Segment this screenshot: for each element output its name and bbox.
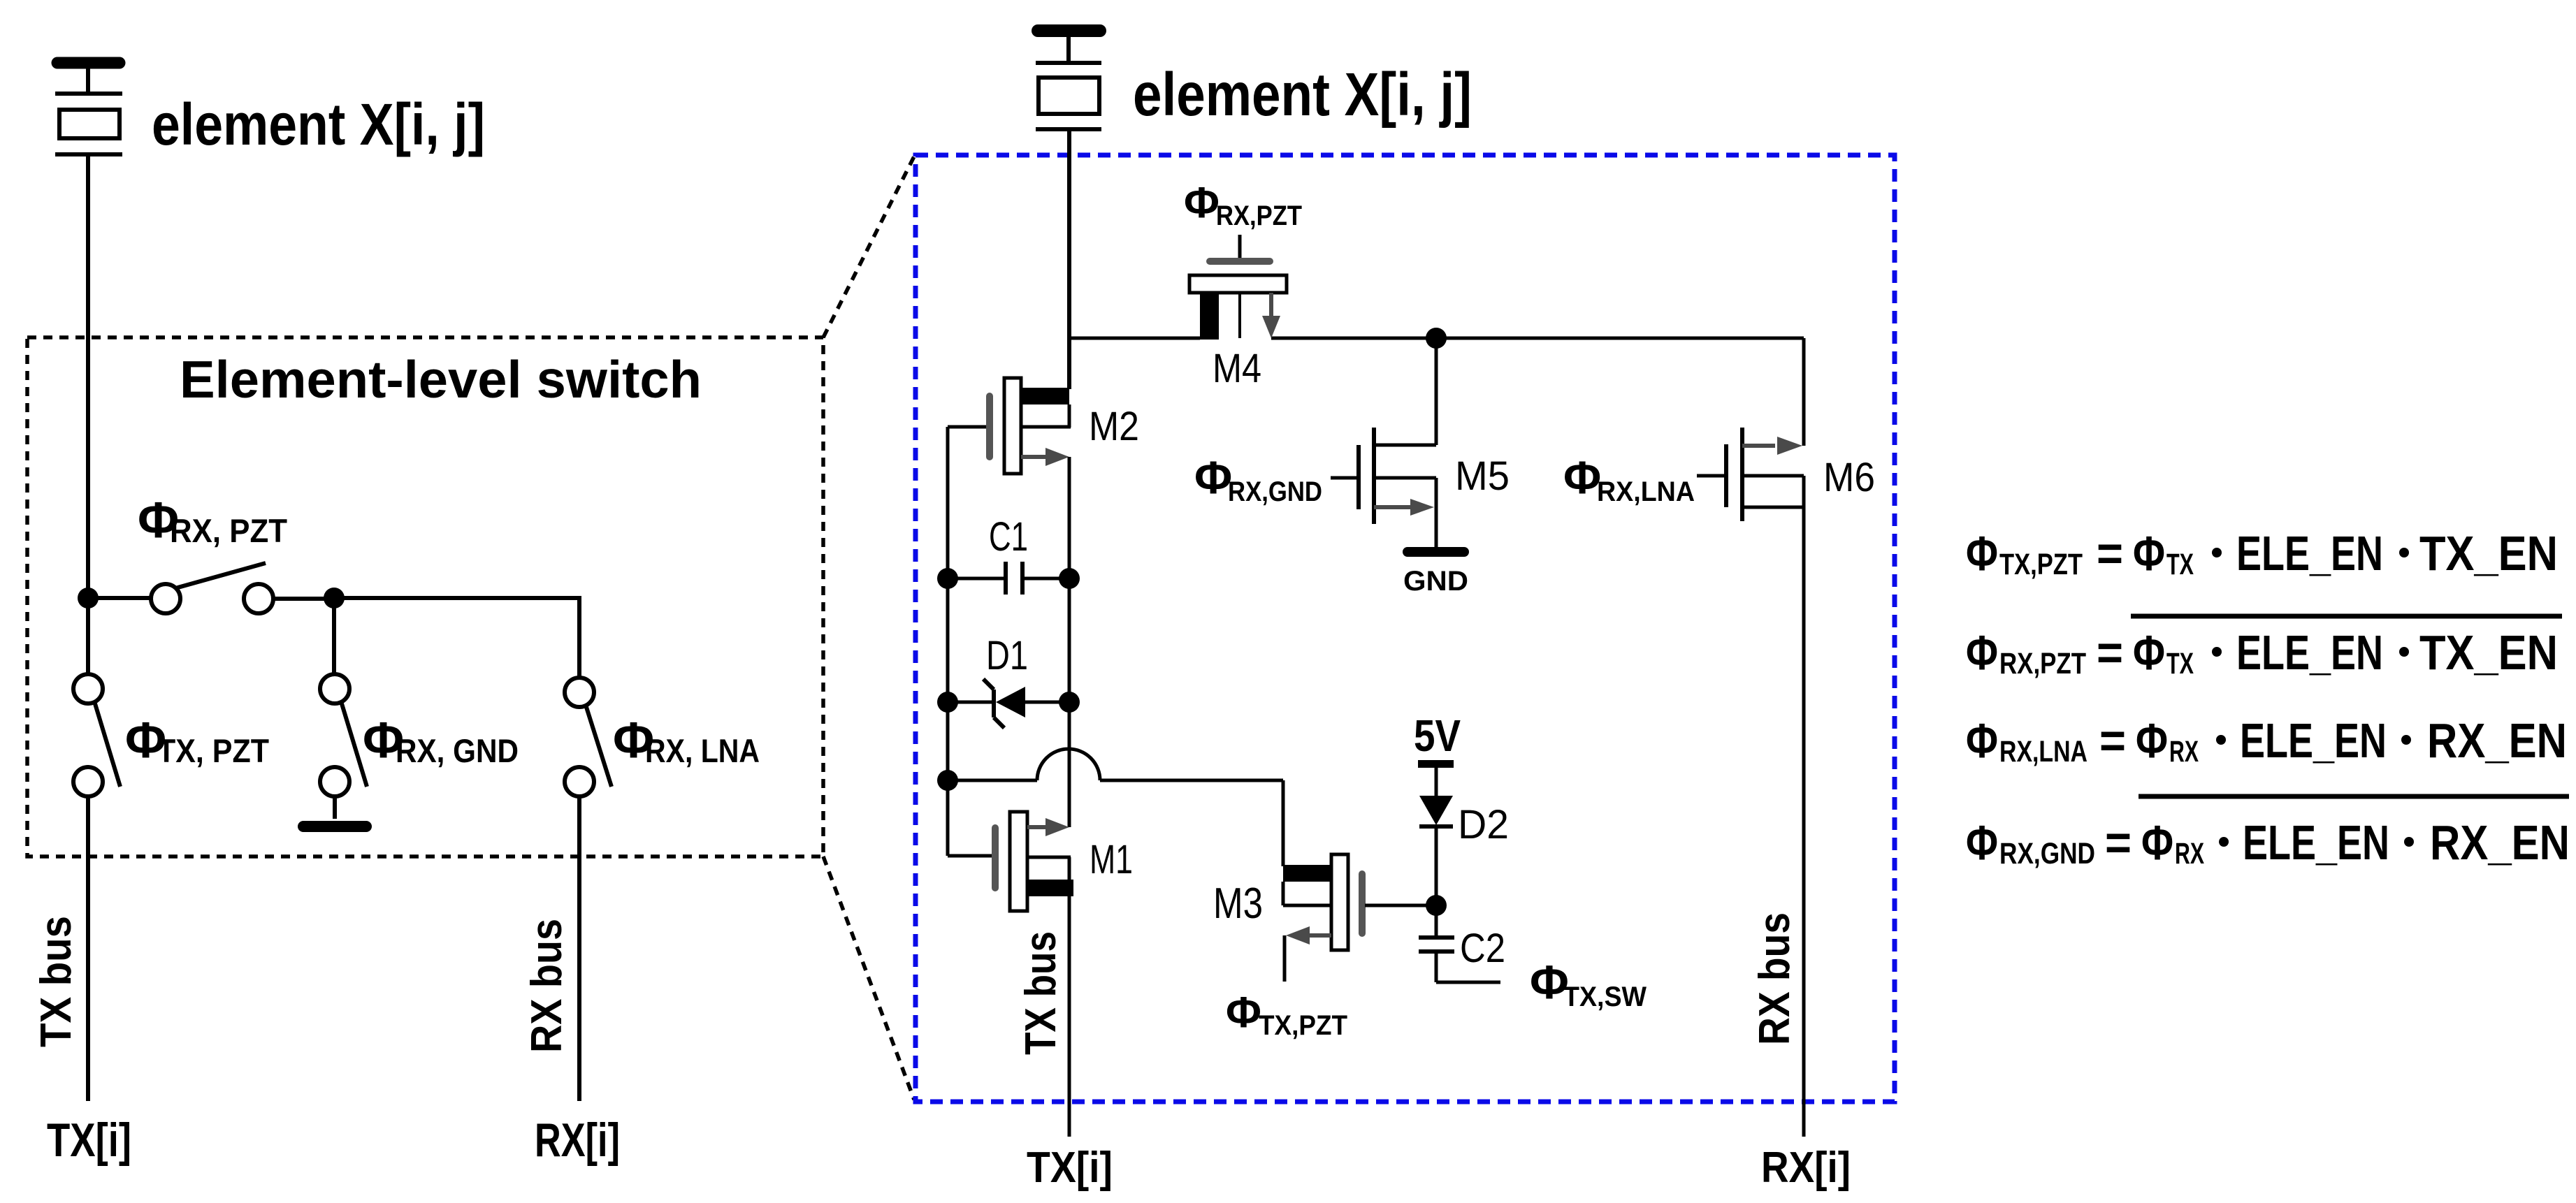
svg-text:RX_EN: RX_EN: [2430, 815, 2570, 870]
projection dashed line top: [823, 156, 914, 337]
svg-text:RX bus: RX bus: [523, 919, 571, 1053]
svg-text:TX[i]: TX[i]: [1027, 1144, 1113, 1192]
svg-text:Φ: Φ: [1563, 451, 1601, 503]
switch PHI RX,PZT (horizontal): [151, 563, 273, 613]
svg-text:RX_EN: RX_EN: [2427, 713, 2567, 768]
svg-text:TX[i]: TX[i]: [47, 1114, 131, 1167]
svg-text:=: =: [2097, 526, 2123, 581]
svg-text:ELE_EN: ELE_EN: [2240, 713, 2387, 768]
switch PHI RX,GND (vertical): [320, 674, 367, 796]
svg-text:TX bus: TX bus: [1017, 931, 1065, 1055]
svg-text:RX,PZT: RX,PZT: [1216, 200, 1302, 231]
svg-text:element X[i, j]: element X[i, j]: [1133, 61, 1472, 129]
svg-text:M3: M3: [1213, 880, 1263, 928]
equation 4: PHI RX,GND with overline: [1966, 796, 2570, 870]
wire node B down: [332, 598, 336, 674]
svg-text:Φ: Φ: [2133, 526, 2165, 581]
transistor M4: [1189, 235, 1287, 340]
ground bar: [303, 821, 366, 832]
svg-text:RX,PZT: RX,PZT: [1999, 647, 2086, 680]
black dashed box (Element-level switch): [27, 337, 823, 856]
svg-text:TX, PZT: TX, PZT: [157, 732, 269, 769]
svg-text:RX,LNA: RX,LNA: [1999, 735, 2087, 768]
svg-text:TX: TX: [2166, 548, 2194, 581]
node dot D1 right: [1059, 692, 1080, 713]
svg-text:ELE_EN: ELE_EN: [2243, 815, 2389, 870]
node B dot: [324, 588, 345, 608]
svg-text:TX bus: TX bus: [32, 916, 80, 1047]
equation 3: PHI RX,LNA: [1966, 713, 2567, 768]
svg-text:GND: GND: [1403, 566, 1468, 597]
svg-text:TX,SW: TX,SW: [1563, 982, 1647, 1012]
transistor M3: [1283, 854, 1436, 982]
svg-text:RX: RX: [2175, 837, 2204, 870]
svg-text:ELE_EN: ELE_EN: [2236, 526, 2383, 581]
left branch wire: [946, 427, 950, 856]
capacitor C2: [1419, 938, 1500, 982]
svg-text:RX, LNA: RX, LNA: [645, 732, 760, 769]
svg-text:RX[i]: RX[i]: [535, 1114, 620, 1167]
svg-text:Φ: Φ: [2133, 625, 2165, 680]
svg-text:TX,PZT: TX,PZT: [1999, 548, 2083, 581]
wire to ground: [333, 796, 337, 819]
RX node wire down: [1802, 507, 1806, 1137]
svg-text:ELE_EN: ELE_EN: [2236, 625, 2383, 680]
wire switch to node B: [273, 597, 334, 601]
svg-text:C2: C2: [1460, 926, 1505, 971]
svg-text:Φ: Φ: [1194, 451, 1232, 503]
switch PHI TX,PZT (vertical): [73, 674, 120, 796]
transistor M5: [1331, 338, 1436, 548]
diode D2: [1419, 796, 1453, 938]
svg-text:RX,GND: RX,GND: [1228, 476, 1322, 507]
svg-text:M5: M5: [1455, 453, 1510, 499]
svg-text:Φ: Φ: [1966, 713, 1998, 768]
svg-text:TX_EN: TX_EN: [2419, 526, 2558, 581]
svg-text:D2: D2: [1458, 802, 1509, 847]
equation 1: PHI TX,PZT: [1966, 526, 2558, 581]
wire node B to corner and down to switch RX,LNA: [334, 598, 579, 678]
svg-text:M4: M4: [1213, 346, 1261, 391]
svg-text:TX,PZT: TX,PZT: [1259, 1010, 1347, 1041]
svg-text:RX: RX: [2169, 735, 2199, 768]
blue dashed box: [916, 155, 1895, 1102]
node dot C1 right: [1059, 568, 1080, 589]
svg-text:D1: D1: [986, 633, 1028, 678]
equation 2: PHI RX,PZT with overline: [1966, 616, 2562, 680]
node dot D1 left: [937, 692, 958, 713]
zener diode D1: [948, 679, 1069, 728]
svg-text:element X[i, j]: element X[i, j]: [152, 92, 485, 157]
svg-text:RX, GND: RX, GND: [396, 732, 519, 769]
TX node wire segments at M1: [1068, 857, 1071, 880]
node dot rail/M5: [1426, 328, 1447, 349]
svg-text:RX[i]: RX[i]: [1761, 1144, 1851, 1192]
transistor M6: [1697, 338, 1804, 521]
svg-text:TX_EN: TX_EN: [2419, 625, 2558, 680]
capacitor C1: [948, 562, 1069, 595]
svg-text:M1: M1: [1090, 837, 1133, 882]
wire element to node A: [86, 154, 90, 598]
node dot C1 left: [937, 568, 958, 589]
wire node A to switch RX,PZT: [88, 596, 152, 600]
svg-text:RX, PZT: RX, PZT: [170, 512, 287, 549]
svg-text:M6: M6: [1823, 455, 1875, 500]
transistor M2: [948, 378, 1071, 474]
ground GND (M5 source): [1408, 547, 1464, 557]
third branch wire with hop over TX node: [948, 749, 1283, 866]
node dot D2/C2/M3 gate: [1426, 895, 1447, 916]
svg-text:Φ: Φ: [2136, 713, 2168, 768]
wire TX bus down: [86, 796, 90, 1101]
svg-text:Φ: Φ: [1966, 625, 1998, 680]
transistor M1: [948, 812, 1073, 911]
svg-text:M2: M2: [1089, 404, 1139, 449]
switch PHI RX,LNA (vertical): [565, 678, 612, 796]
svg-text:Φ: Φ: [1966, 815, 1998, 870]
transducer element X[i,j] (middle): [1036, 31, 1101, 129]
svg-text:=: =: [2097, 625, 2123, 680]
svg-text:C1: C1: [989, 514, 1028, 560]
node A dot: [78, 588, 99, 608]
top rail wire: [1069, 337, 1200, 340]
svg-text:RX,LNA: RX,LNA: [1597, 476, 1695, 507]
wire RX bus down: [577, 796, 581, 1101]
transducer element X[i,j] (left): [55, 63, 122, 154]
svg-text:5V: 5V: [1414, 710, 1461, 761]
svg-text:TX: TX: [2166, 647, 2194, 680]
svg-text:Φ: Φ: [2141, 815, 2173, 870]
svg-text:RX,GND: RX,GND: [1999, 837, 2095, 870]
svg-text:Φ: Φ: [1226, 989, 1261, 1037]
wire node A down: [86, 598, 90, 674]
svg-text:Φ: Φ: [1966, 526, 1998, 581]
TX node wire segment (M2 to M1): [1068, 404, 1071, 428]
svg-text:RX bus: RX bus: [1751, 912, 1799, 1045]
svg-text:Element-level switch: Element-level switch: [180, 350, 702, 409]
node dot third branch: [937, 770, 958, 791]
svg-text:=: =: [2105, 815, 2132, 870]
projection dashed line bottom: [823, 856, 914, 1100]
svg-text:=: =: [2099, 713, 2126, 768]
svg-text:Φ: Φ: [1184, 179, 1220, 227]
TX node wire (element down to rail corner): [1067, 129, 1071, 389]
